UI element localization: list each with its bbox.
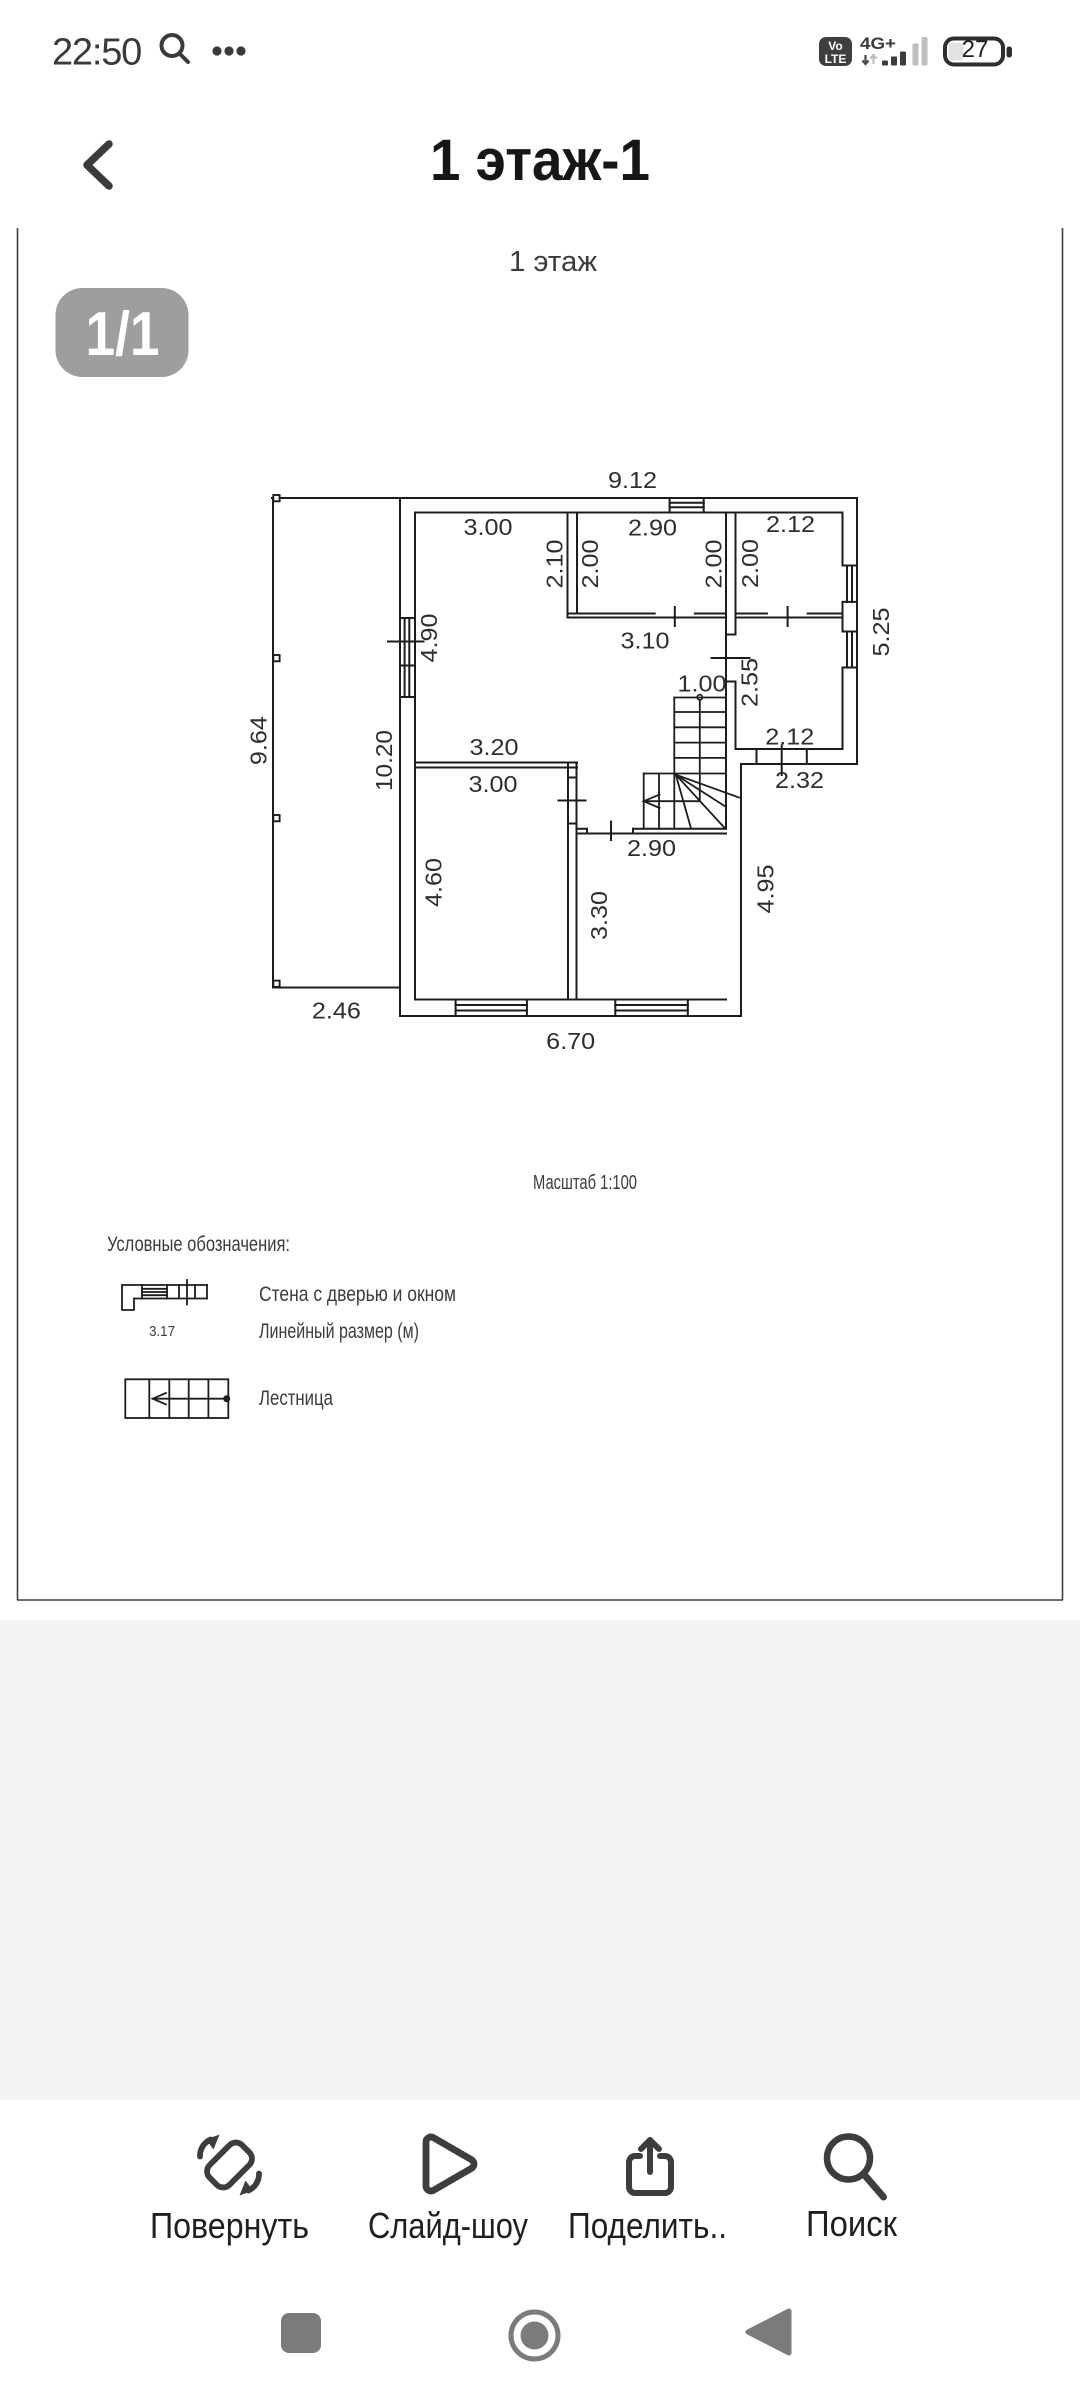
window right wall lower — [843, 631, 858, 633]
winder fan lines — [676, 775, 739, 798]
wall bottom outer — [400, 1015, 741, 1017]
legend stair symbol — [125, 1379, 230, 1418]
svg-text:3.30: 3.30 — [586, 891, 612, 940]
status bar search icon — [162, 35, 189, 62]
svg-text:3.20: 3.20 — [470, 734, 519, 760]
svg-text:2.46: 2.46 — [312, 998, 361, 1024]
VoLTE badge — [819, 37, 852, 66]
door jambs in notch wall — [756, 749, 758, 764]
svg-text:1 этаж-1: 1 этаж-1 — [430, 128, 650, 193]
svg-text:Vo: Vo — [828, 39, 842, 53]
legend wall symbol — [122, 1280, 207, 1310]
wall right outer — [856, 498, 858, 764]
svg-text:Лестница: Лестница — [259, 1386, 333, 1410]
wall top outer — [272, 497, 857, 499]
svg-text:27: 27 — [962, 36, 989, 63]
battery indicator 27 — [945, 36, 1012, 65]
terrace left edge — [272, 498, 274, 988]
wall left outer — [399, 498, 401, 1016]
extension line under 2.12 — [781, 745, 783, 775]
svg-text:Поделить..: Поделить.. — [568, 2205, 727, 2246]
window left wall — [400, 617, 415, 619]
svg-text:4.90: 4.90 — [416, 614, 442, 663]
svg-text:2.32: 2.32 — [775, 767, 824, 793]
wall under top rooms, lower line — [568, 617, 726, 619]
dimension tick hall partition — [559, 800, 586, 802]
dimension tick left window — [388, 641, 424, 643]
wall left inner — [414, 513, 416, 1000]
svg-text:2.90: 2.90 — [627, 835, 676, 861]
window bottom wall left — [455, 1000, 457, 1017]
svg-text:Масштаб 1:100: Масштаб 1:100 — [533, 1172, 637, 1194]
svg-text:6.70: 6.70 — [546, 1028, 595, 1054]
terrace posts — [273, 495, 279, 987]
signal bars — [882, 37, 928, 66]
svg-text:3.00: 3.00 — [464, 514, 513, 540]
stair partition wall left line — [725, 513, 727, 829]
svg-text:2.55: 2.55 — [736, 658, 762, 707]
door caps hall partition — [568, 777, 577, 779]
wall top inner — [415, 512, 843, 514]
wall 3.20 double line — [415, 762, 577, 764]
svg-text:Повернуть: Повернуть — [150, 2205, 309, 2246]
svg-text:4.95: 4.95 — [752, 865, 778, 914]
nav square button — [281, 2313, 321, 2353]
nav circle button — [511, 2312, 558, 2359]
door tick hall bottom wall — [610, 822, 612, 841]
wall bottom inner — [415, 999, 726, 1001]
door tick right room — [787, 607, 789, 626]
svg-text:Линейный размер (м): Линейный размер (м) — [259, 1319, 419, 1343]
svg-text:Поиск: Поиск — [806, 2203, 897, 2244]
svg-text:2.00: 2.00 — [737, 539, 763, 588]
door jamb caps on partition — [726, 634, 736, 636]
status bar overflow dots — [212, 46, 245, 55]
svg-text:2.00: 2.00 — [577, 540, 603, 589]
svg-text:2.90: 2.90 — [628, 515, 677, 541]
svg-text:4G+: 4G+ — [860, 34, 896, 53]
svg-text:LTE: LTE — [825, 52, 847, 66]
toolbar play icon — [426, 2137, 474, 2191]
nav back triangle button — [748, 2311, 789, 2353]
svg-text:9.64: 9.64 — [245, 716, 271, 765]
notch inner wall — [736, 748, 843, 750]
toolbar search icon — [827, 2137, 884, 2198]
dimension tick on partition — [712, 657, 750, 659]
svg-text:3.17: 3.17 — [149, 1323, 175, 1340]
svg-text:3.10: 3.10 — [621, 628, 670, 654]
door tick left room — [674, 607, 676, 626]
svg-text:4.60: 4.60 — [420, 858, 446, 907]
svg-text:2.12: 2.12 — [766, 511, 815, 537]
content frame border — [17, 228, 1063, 1600]
svg-text:22:50: 22:50 — [52, 32, 141, 74]
toolbar rotate icon — [203, 2139, 255, 2191]
wall right inner segments — [842, 513, 844, 566]
svg-text:1 этаж: 1 этаж — [509, 246, 598, 278]
data activity arrows — [863, 55, 877, 64]
dimension labels — [245, 467, 894, 1054]
page counter badge 1/1 — [56, 288, 189, 377]
stair — [644, 695, 739, 829]
svg-text:2.10: 2.10 — [542, 540, 568, 589]
svg-text:1.00: 1.00 — [678, 671, 727, 697]
wall under top rooms, upper line — [568, 613, 655, 615]
stair partition wall right line — [735, 513, 737, 635]
svg-text:Стена с дверью и окном: Стена с дверью и окном — [259, 1282, 456, 1306]
header back chevron — [87, 144, 109, 186]
room 2.90 left wall — [567, 513, 569, 618]
window bottom wall right — [614, 1000, 616, 1017]
terrace bottom edge — [273, 987, 400, 989]
window top wall — [669, 498, 671, 513]
window right wall upper — [843, 565, 858, 567]
svg-text:2.12: 2.12 — [765, 724, 814, 750]
stair direction line — [697, 695, 702, 700]
gray filmstrip band — [0, 1620, 1080, 2100]
hall bottom wall — [577, 828, 587, 830]
svg-text:1/1: 1/1 — [86, 300, 160, 369]
notch outer wall — [741, 763, 857, 765]
svg-text:3.00: 3.00 — [469, 771, 518, 797]
svg-text:Слайд-шоу: Слайд-шоу — [368, 2205, 528, 2246]
hall partition wall vertical — [567, 763, 569, 1000]
toolbar share icon — [629, 2140, 671, 2193]
svg-text:2.00: 2.00 — [700, 540, 726, 589]
svg-text:10.20: 10.20 — [371, 730, 397, 791]
svg-text:9.12: 9.12 — [608, 467, 657, 493]
svg-text:Условные обозначения:: Условные обозначения: — [107, 1232, 290, 1256]
svg-text:5.25: 5.25 — [868, 608, 894, 657]
